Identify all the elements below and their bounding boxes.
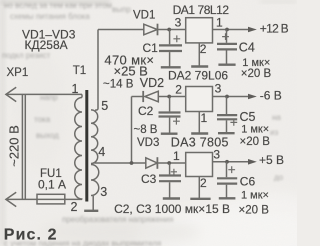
ground bar C2 <box>161 132 178 134</box>
wire DA3 ground pin 2 <box>198 177 200 199</box>
node dot C5 tap <box>225 95 229 99</box>
ground bar C6 <box>219 197 236 199</box>
svg-text:1: 1 <box>201 111 208 125</box>
wire DA1 output to +12V arrow <box>213 29 250 31</box>
diode VD3 <box>146 157 158 169</box>
wire bottom mains from XP1 to fuse and T1 pin 2 <box>6 198 82 200</box>
svg-text:DA3 7805: DA3 7805 <box>171 135 229 149</box>
transformer T1 secondary winding upper (pins 5-4) <box>91 30 98 164</box>
svg-text:1: 1 <box>216 15 223 29</box>
connector XP1 bottom contact <box>6 192 16 206</box>
ground bar C3 <box>163 197 180 199</box>
transformer T1 secondary winding lower (pins 4-3) <box>91 165 99 211</box>
svg-text:КД258А: КД258А <box>25 38 68 52</box>
diode VD2 (reversed, cathode left) <box>143 91 158 102</box>
svg-text:C2: C2 <box>138 104 154 118</box>
svg-text:1: 1 <box>173 149 180 163</box>
svg-text:~220 В: ~220 В <box>6 125 21 167</box>
wire VD3 cathode to DA3 input <box>158 162 186 164</box>
svg-text:~14 В: ~14 В <box>103 79 134 91</box>
ground bar C5 <box>218 132 235 134</box>
svg-text:2: 2 <box>200 176 207 190</box>
capacitor C6 <box>217 162 237 198</box>
svg-text:2: 2 <box>71 200 78 214</box>
svg-text:3: 3 <box>215 81 222 95</box>
diode VD1 <box>144 24 158 36</box>
ground bar at secondary pin 3 <box>84 210 98 212</box>
regulator DA1 78L12 box <box>186 18 213 43</box>
wire connector body lines <box>22 94 25 199</box>
svg-text:+12 В: +12 В <box>260 22 289 36</box>
capacitor C1 <box>159 30 182 68</box>
svg-text:C3: C3 <box>141 172 157 186</box>
node dot C3 tap <box>167 161 171 165</box>
wire riser from row3 to VD2 <box>131 97 133 164</box>
svg-text:C6: C6 <box>240 175 256 189</box>
svg-text:2: 2 <box>200 42 207 56</box>
node dot C2 tap <box>167 95 171 99</box>
svg-text:3: 3 <box>175 16 182 30</box>
svg-text:Рис. 2: Рис. 2 <box>4 227 58 244</box>
capacitor C4 <box>217 30 237 65</box>
svg-text:×20 В: ×20 В <box>239 205 270 217</box>
svg-text:0,1 А: 0,1 А <box>38 178 66 192</box>
ground bar DA1 <box>191 65 208 67</box>
wire row3 from T1 tap 4 to VD3 <box>95 162 146 164</box>
svg-text:3: 3 <box>213 147 220 161</box>
node dot C6 tap <box>225 160 229 164</box>
svg-text:5: 5 <box>101 99 108 113</box>
transformer T1 core <box>85 90 88 202</box>
svg-text:1: 1 <box>72 82 79 96</box>
node dot C1 tap <box>167 28 171 32</box>
svg-text:+5 В: +5 В <box>259 153 284 167</box>
fuse FU1 <box>37 194 65 204</box>
wire top mains from XP1 to T1 pin 1 <box>6 93 82 95</box>
wire VD2 to DA2 input <box>159 96 186 98</box>
svg-text:VD2: VD2 <box>140 76 164 90</box>
svg-text:1 мк×: 1 мк× <box>241 190 269 202</box>
svg-text:2: 2 <box>175 82 182 96</box>
svg-text:C1: C1 <box>143 41 159 55</box>
svg-text:C5: C5 <box>240 110 256 124</box>
svg-text:4: 4 <box>98 145 105 159</box>
regulator DA2 79L06 box <box>186 87 213 112</box>
wire DA1 ground pin 2 <box>198 43 200 67</box>
arrow -6V output <box>248 94 257 100</box>
connector XP1 top contact <box>6 87 16 101</box>
svg-text:T1: T1 <box>73 65 86 77</box>
svg-text:~8 В: ~8 В <box>134 124 158 136</box>
ground bar C4 <box>218 63 235 65</box>
wire VD1 cathode to DA1 input <box>158 29 185 31</box>
ground bar DA2 <box>191 132 208 134</box>
svg-text:C4: C4 <box>239 41 255 55</box>
node dot riser junction <box>130 161 134 165</box>
wire VD2 anode branch <box>132 96 143 98</box>
regulator DA3 7805 box <box>186 153 213 177</box>
svg-text:-6 В: -6 В <box>260 89 282 103</box>
svg-text:1 мк×: 1 мк× <box>242 57 270 69</box>
wire DA3 output to +5V arrow <box>213 161 250 163</box>
wire DA2 output to -6V arrow <box>213 96 250 98</box>
wire top rail from T1 pin 5 to VD1 <box>98 29 144 31</box>
transformer T1 primary winding <box>75 94 82 199</box>
arrow +5V output <box>248 159 257 165</box>
svg-text:×20 В: ×20 В <box>241 68 272 80</box>
svg-text:3: 3 <box>100 185 107 199</box>
svg-text:XP1: XP1 <box>7 67 29 79</box>
ground bar C1 <box>161 66 181 68</box>
capacitor C2 <box>159 97 181 134</box>
node dot C4 tap <box>225 28 229 32</box>
ground bar DA3 <box>190 198 210 200</box>
wire DA2 ground pin 1 <box>198 112 200 134</box>
capacitor C5 <box>217 97 237 134</box>
svg-text:1 мк×: 1 мк× <box>241 124 269 136</box>
arrow +12V output <box>248 27 257 33</box>
svg-text:×20 В: ×20 В <box>240 136 271 148</box>
svg-text:VD1: VD1 <box>133 10 155 22</box>
svg-text:VD3: VD3 <box>137 137 159 149</box>
capacitor C3 <box>159 163 181 198</box>
svg-text:C2, C3 1000 мк×15 В: C2, C3 1000 мк×15 В <box>114 202 230 216</box>
